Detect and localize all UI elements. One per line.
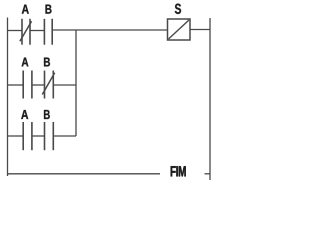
label FIM (end marker) (171, 166, 186, 176)
wire output box to right rail (190, 29, 210, 31)
wire rung2 to branch junction (53, 84, 76, 86)
left power rail (7, 18, 9, 177)
label B rung3 (44, 110, 50, 119)
wire rung1 to output box (52, 29, 167, 31)
wire rung2 left segment (8, 84, 24, 86)
slash of NC contact B2 (42, 73, 54, 95)
wire rung1 left segment (8, 30, 23, 32)
diagonal of output box S (169, 20, 190, 39)
wire rung3 to branch junction (53, 135, 76, 137)
bottom wire to FIM (8, 173, 161, 175)
label B rung2 (44, 58, 50, 67)
contact A1 (NC contact A, rung 1) (22, 19, 30, 45)
wire rung3 left segment (8, 135, 24, 137)
contact B2 (NC contact B, rung 2) (45, 71, 54, 99)
contact B3 (NO contact B, rung 3) (45, 122, 54, 150)
slash of NC contact A1 (20, 21, 32, 41)
contact A2 (NO contact A, rung 2) (23, 71, 32, 99)
contact B1 (NO contact B, rung 1) (44, 19, 52, 45)
wire rung3 middle segment (32, 135, 45, 137)
label A rung1 (22, 5, 29, 14)
label S (output) (175, 4, 181, 14)
label A rung2 (22, 58, 29, 67)
right power rail (209, 18, 211, 180)
wire rung1 middle segment (30, 30, 44, 32)
wire rung2 middle segment (32, 84, 45, 86)
output box S (coil) (168, 19, 191, 40)
branch junction vertical wire (75, 31, 77, 137)
wire FIM to right rail (205, 173, 211, 175)
contact A3 (NO contact A, rung 3) (23, 122, 32, 150)
label B rung1 (46, 5, 52, 14)
label A rung3 (21, 110, 28, 119)
